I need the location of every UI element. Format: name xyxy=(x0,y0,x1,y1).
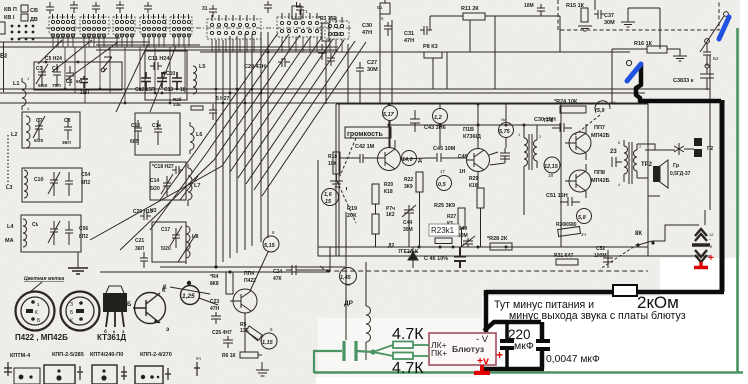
svg-text:Р8 К3: Р8 К3 xyxy=(423,44,438,50)
junction dots amp xyxy=(388,103,526,249)
switch group S6 contacts xyxy=(210,15,255,35)
capacitor C7 trimmer xyxy=(33,116,45,140)
resistor R5 diagonal xyxy=(246,326,263,340)
capacitor C45 xyxy=(428,153,450,162)
capacitor C49 trimmer xyxy=(461,236,475,247)
svg-text:R25 3К9: R25 3К9 xyxy=(434,203,455,209)
wire thick capacitor loop top xyxy=(484,322,541,331)
svg-text:№: № xyxy=(501,117,505,122)
capacitor c-mid-b xyxy=(264,1,272,13)
transistor bottom view 2 outer xyxy=(61,292,100,331)
transistor T1 circle xyxy=(378,148,401,171)
capacitor trimmer L4 xyxy=(48,221,60,245)
svg-text:Б: Б xyxy=(127,302,132,308)
switch group S5 contacts xyxy=(172,14,190,31)
svg-text:L4: L4 xyxy=(7,224,14,230)
svg-text:С3833 к: С3833 к xyxy=(673,78,694,84)
speaker cone xyxy=(660,160,668,188)
dashed diagonal 8K xyxy=(600,244,638,269)
wire thick vertical along right side xyxy=(720,100,725,292)
svg-text:23: 23 xyxy=(610,149,617,155)
svg-text:Б1: Б1 xyxy=(377,5,383,10)
svg-text:К18: К18 xyxy=(384,189,393,195)
svg-text:С5 Н24: С5 Н24 xyxy=(45,56,62,62)
wire long horizontal y103 xyxy=(0,102,648,104)
svg-text:С44: С44 xyxy=(403,220,412,226)
wire k to pp4 xyxy=(170,287,210,294)
capacitor C20 xyxy=(140,212,151,220)
diode D2 xyxy=(408,247,418,268)
transistor symbol circle xyxy=(135,293,166,324)
svg-text:1Н: 1Н xyxy=(459,169,466,175)
connector sym BC xyxy=(121,366,127,380)
capacitor C18 xyxy=(172,166,183,174)
svg-text:68П: 68П xyxy=(130,139,140,145)
svg-text:С21: С21 xyxy=(135,238,144,244)
circle B2 terminal xyxy=(705,39,710,44)
capacitor C14 trimmer xyxy=(161,174,173,196)
wire c24 to dr xyxy=(302,247,330,270)
wire verticals amp feed xyxy=(348,14,392,104)
L3 section box xyxy=(22,168,82,202)
svg-text:С49: С49 xyxy=(458,226,467,232)
svg-text:10М: 10М xyxy=(524,3,534,9)
wire corner diagonal xyxy=(700,16,724,52)
circled value 1,15 xyxy=(261,333,277,349)
coil L7 xyxy=(188,164,192,206)
ground red repaint over green xyxy=(474,366,490,373)
svg-text:L3: L3 xyxy=(6,185,12,191)
svg-text:47Н: 47Н xyxy=(210,306,220,312)
svg-text:0ч: 0ч xyxy=(196,356,202,361)
svg-text:L1: L1 xyxy=(13,81,19,87)
svg-text:R20: R20 xyxy=(384,182,393,188)
resistor R3 vertical xyxy=(322,23,329,41)
connector G1 small xyxy=(292,2,301,19)
svg-text:К: К xyxy=(163,285,167,291)
svg-text:КПП-2-5/285: КПП-2-5/285 xyxy=(52,352,84,358)
switch group S4 box xyxy=(140,17,166,34)
svg-text:18: 18 xyxy=(548,173,554,178)
wire R16 left xyxy=(612,49,647,89)
diagonal fan line 8 xyxy=(254,41,355,190)
svg-text:С43 3Н6: С43 3Н6 xyxy=(424,125,446,131)
wire tp1 secondary down xyxy=(524,125,561,247)
capacitor C17 trimmer xyxy=(170,226,182,248)
svg-text:ПК+: ПК+ xyxy=(431,348,447,358)
label gromkost box xyxy=(345,127,391,138)
wire g2 xyxy=(684,148,694,150)
resistor R31 horizontal xyxy=(556,259,578,265)
tv2 pins xyxy=(70,301,84,324)
connector A circles xyxy=(19,375,33,380)
svg-text:- V: - V xyxy=(476,334,489,345)
wire long horizontal y267 xyxy=(160,266,345,268)
wire vertical x360 xyxy=(359,78,361,104)
coil L8 xyxy=(186,222,190,264)
resistor 2kOm body xyxy=(613,285,637,296)
svg-text:1,15: 1,15 xyxy=(262,340,274,346)
svg-text:С54: С54 xyxy=(81,172,90,178)
transistor PP7 circle xyxy=(569,132,591,154)
connector sym A xyxy=(4,362,12,376)
wire bottom bus y247 xyxy=(318,246,648,248)
wire comb S6 S7 S8 xyxy=(212,37,342,52)
svg-text:47Н: 47Н xyxy=(404,38,414,44)
wire left bracket xyxy=(0,22,5,34)
capacitor C24 xyxy=(286,265,302,275)
wire thick horizontal bottom right to resistor xyxy=(637,290,724,295)
dashed amp bottom border xyxy=(320,266,648,271)
resistor R16 xyxy=(647,46,667,53)
transistor PP4 circle xyxy=(233,289,257,313)
L7 can box xyxy=(150,162,186,200)
svg-text:С10: С10 xyxy=(332,32,341,38)
transistor PP7 internals xyxy=(565,133,586,153)
contact group A dots xyxy=(11,25,35,41)
capacitor 10M xyxy=(537,4,545,16)
diagonal fan line 5 xyxy=(230,37,322,172)
wire verticals right feed xyxy=(430,16,560,89)
capacitor C4 xyxy=(53,64,61,86)
svg-text:КПТМ-4: КПТМ-4 xyxy=(10,353,31,359)
svg-text:КПТ4/240-П0: КПТ4/240-П0 xyxy=(90,352,123,358)
dashed diagonal from 5,9 xyxy=(575,115,600,135)
wire from 1,25 xyxy=(199,298,218,305)
svg-text:5/20: 5/20 xyxy=(34,138,44,144)
coil L6 xyxy=(190,122,194,154)
diagonal link to L2 box xyxy=(116,44,176,112)
wire amp horizontal y125 xyxy=(389,124,561,126)
svg-text:С28 47Н: С28 47Н xyxy=(244,64,266,70)
pointer line metka xyxy=(30,282,42,292)
svg-text:К736IД: К736IД xyxy=(463,134,481,140)
svg-text:R27: R27 xyxy=(447,214,456,220)
wire vertical bus 2 xyxy=(222,40,224,262)
svg-text:Д2: Д2 xyxy=(388,243,395,249)
svg-text:С 46 10%: С 46 10% xyxy=(424,256,448,262)
connector B circles xyxy=(56,369,61,380)
connector sym CD xyxy=(165,368,171,380)
svg-text:ПП8: ПП8 xyxy=(594,170,605,176)
switch group S5 box xyxy=(170,17,192,34)
svg-text:5/20: 5/20 xyxy=(150,186,160,192)
capacitor top row c-c xyxy=(92,2,100,13)
capacitor N mid xyxy=(327,53,335,66)
svg-text:С4: С4 xyxy=(52,66,59,72)
svg-text:ПП4: ПП4 xyxy=(244,271,254,277)
capacitor C48 xyxy=(500,148,510,163)
svg-text:5 Н27: 5 Н27 xyxy=(216,96,230,102)
svg-text:*R28 2К: *R28 2К xyxy=(487,236,508,242)
L8 can box xyxy=(152,222,186,262)
switch group S1 contacts xyxy=(51,14,74,31)
battery chevrons up xyxy=(695,229,707,241)
resistor R26 xyxy=(191,106,203,110)
connector G2 lower block xyxy=(694,149,702,157)
L6 can box xyxy=(135,113,180,155)
band switch square SV xyxy=(21,5,28,12)
wire r11 xyxy=(430,15,560,17)
svg-text:8К8: 8К8 xyxy=(210,281,219,287)
wire long horizontal y52 xyxy=(96,45,630,52)
svg-text:47Н: 47Н xyxy=(362,30,372,36)
wire vertical bus 6 xyxy=(251,34,253,246)
svg-text:ПП7: ПП7 xyxy=(594,125,605,131)
svg-text:ДВ: ДВ xyxy=(30,17,38,23)
dashed wire r19 xyxy=(337,181,356,223)
battery bar xyxy=(692,243,710,247)
switch group S8 box xyxy=(325,21,349,39)
svg-text:8К: 8К xyxy=(635,231,642,237)
capacitor top row c-e xyxy=(144,2,152,13)
choke DR coil xyxy=(366,298,371,350)
svg-text:R29: R29 xyxy=(469,176,478,182)
capacitor row c xyxy=(172,72,182,88)
resistor R29 vertical xyxy=(477,188,484,208)
capacitor C44 trimmer xyxy=(402,205,416,218)
resistor R15 vertical xyxy=(581,8,588,22)
svg-text:1,6: 1,6 xyxy=(324,192,333,198)
wire t1 collector up xyxy=(390,121,440,149)
svg-text:+: + xyxy=(708,253,714,264)
green resistor lower 4.7K xyxy=(393,353,413,360)
switch group S3 contacts xyxy=(115,14,133,31)
switch group S2 contacts xyxy=(82,14,105,31)
wire long horizontal y272 xyxy=(100,271,330,273)
corner circle top right xyxy=(724,12,729,17)
circled value 5,75 xyxy=(499,123,514,138)
capacitor 15P left xyxy=(80,76,88,88)
ground red below box xyxy=(475,365,489,373)
capacitor C6 xyxy=(66,66,74,86)
circle node C3833 xyxy=(626,60,631,65)
svg-text:С16: С16 xyxy=(131,123,140,129)
resistor R24 horizontal xyxy=(560,106,586,113)
svg-text:5,8: 5,8 xyxy=(578,215,587,221)
wire vertical bus 7 xyxy=(260,32,262,242)
transistor T2 circle xyxy=(467,149,490,172)
svg-text:30М: 30М xyxy=(367,67,378,73)
resistor R18 vertical xyxy=(333,152,340,174)
svg-text:П422 , МП42Б: П422 , МП42Б xyxy=(15,333,68,342)
transistor PP4 internals xyxy=(230,291,251,311)
svg-text:30М: 30М xyxy=(403,227,413,233)
connector D circles xyxy=(141,375,160,379)
switch nodes xyxy=(636,243,639,246)
svg-text:С23: С23 xyxy=(210,299,219,305)
circled value 1,6 15 xyxy=(322,189,339,206)
capacitor row a xyxy=(141,72,151,88)
svg-text:1,2: 1,2 xyxy=(434,115,442,121)
svg-text:КПП-2-4/270: КПП-2-4/270 xyxy=(140,352,172,358)
svg-text:СВ: СВ xyxy=(30,8,38,14)
L2 section box xyxy=(22,112,80,148)
junction dots bus247 xyxy=(418,246,508,249)
svg-text:С11 Н24: С11 Н24 xyxy=(148,56,170,62)
capacitor C43 xyxy=(410,110,420,132)
capacitor trimmer L3 xyxy=(48,172,60,196)
package KT361D tab xyxy=(106,286,124,293)
transformer TP2 left winding xyxy=(624,140,628,182)
blue pen mark near C3833 xyxy=(627,64,641,81)
diagonal fan line 2 xyxy=(150,34,289,230)
svg-text:8П2: 8П2 xyxy=(81,180,90,186)
svg-text:П1В: П1В xyxy=(463,127,474,133)
svg-text:С3: С3 xyxy=(36,66,43,72)
svg-text:1К2: 1К2 xyxy=(386,212,395,218)
svg-text:4.7К: 4.7К xyxy=(392,360,424,377)
svg-text:Г1: Г1 xyxy=(303,9,308,14)
svg-text:С13: С13 xyxy=(164,87,173,93)
coil L1 xyxy=(22,78,26,110)
wire right area xyxy=(612,8,699,241)
circled value 12,15 xyxy=(544,157,560,173)
wire border right xyxy=(709,55,711,210)
connector sym E xyxy=(194,362,200,376)
wire vertical to green cap xyxy=(345,212,347,340)
diagonal fan line 9 xyxy=(262,42,366,196)
connector rect A xyxy=(14,368,40,384)
resistor R27 vertical xyxy=(458,208,465,228)
transistor PP8 internals xyxy=(565,171,586,191)
svg-text:+: + xyxy=(496,348,503,362)
blue pen mark top right corner xyxy=(719,17,729,39)
circled value 5,9 xyxy=(595,101,610,112)
green wire right vertical xyxy=(736,28,739,373)
resistor R22 vertical xyxy=(416,172,423,192)
transistor bottom view 1 outer xyxy=(16,292,55,331)
svg-text:громкость: громкость xyxy=(347,131,383,138)
capacitor L4 fixed xyxy=(65,221,73,245)
svg-text:С25 4Н7: С25 4Н7 xyxy=(212,330,232,336)
coil L2 xyxy=(26,116,30,148)
wire thick capacitor loop bottom xyxy=(483,367,544,372)
circled value 5,15 xyxy=(263,236,279,252)
svg-text:L6: L6 xyxy=(196,132,202,138)
wire amp verticals to bus xyxy=(339,158,481,247)
svg-text:С14: С14 xyxy=(150,178,159,184)
svg-text:С51 15Н: С51 15Н xyxy=(546,193,568,199)
battery chevrons down xyxy=(695,250,707,262)
resistor R26a horizontal xyxy=(435,238,452,244)
wire long horizontal y93 xyxy=(0,92,645,94)
package KT361D body xyxy=(103,293,127,312)
wire vertical bus 1 xyxy=(215,40,217,267)
svg-text:5,75: 5,75 xyxy=(499,129,511,135)
connector B1 xyxy=(380,0,390,14)
connector C circles xyxy=(101,369,106,380)
wire bottom right bus xyxy=(530,256,710,268)
green wire branch lower xyxy=(373,352,393,356)
capacitor C3 trimmer xyxy=(36,64,48,86)
svg-text:R23k1: R23k1 xyxy=(431,226,455,235)
svg-text:R6 1К: R6 1К xyxy=(222,353,237,359)
wire vertical bus 8 xyxy=(267,32,269,238)
green capacitor plates xyxy=(344,341,356,361)
switch group S3 box xyxy=(113,17,135,34)
L4 section box xyxy=(21,215,81,252)
capacitor C11 xyxy=(150,62,162,70)
svg-text:С52: С52 xyxy=(596,246,605,252)
ground R16 xyxy=(673,56,687,61)
resistor R21 vertical xyxy=(372,214,379,234)
svg-text:*R4: *R4 xyxy=(210,274,219,280)
svg-text:К: К xyxy=(70,318,73,324)
capacitor top row c-a xyxy=(46,2,54,14)
svg-text:С48: С48 xyxy=(458,154,467,160)
svg-text:З: З xyxy=(70,302,73,308)
capacitor C3833 xyxy=(700,68,714,90)
svg-text:С42 1М: С42 1М xyxy=(355,144,375,150)
svg-text:5,17: 5,17 xyxy=(383,112,395,118)
diagonal fan line 7 xyxy=(246,40,344,184)
connector rect C xyxy=(92,365,117,384)
wire extra horizontals top left xyxy=(0,38,186,45)
svg-text:75П: 75П xyxy=(52,83,61,89)
green junction node xyxy=(370,349,375,354)
jack symbol arrows xyxy=(674,143,684,155)
svg-text:36П: 36П xyxy=(135,246,145,252)
svg-text:14,0: 14,0 xyxy=(402,157,413,163)
wire pp4 emitter down xyxy=(245,313,262,355)
switch group S2 box xyxy=(80,17,109,34)
tv1 pins xyxy=(26,300,41,324)
svg-text:4.7К: 4.7К xyxy=(392,326,424,343)
coil L5 xyxy=(193,66,197,94)
svg-text:5/20: 5/20 xyxy=(38,83,48,89)
resistor R6 horizontal xyxy=(240,352,258,358)
svg-text:31: 31 xyxy=(202,6,208,12)
wire from L4 down xyxy=(77,252,79,268)
switch link dash-dot line xyxy=(46,27,352,29)
capacitor 220mkF plates xyxy=(500,341,514,348)
svg-text:3К9: 3К9 xyxy=(404,184,413,190)
connector rect B xyxy=(44,365,75,384)
svg-text:8П2: 8П2 xyxy=(79,234,88,240)
antenna trimmer switch xyxy=(103,57,112,72)
wire battery top xyxy=(704,210,706,225)
svg-text:15: 15 xyxy=(325,199,332,205)
green wire cap to junction xyxy=(357,351,373,352)
svg-text:МП42Б: МП42Б xyxy=(591,178,610,184)
package KT361D legs xyxy=(106,312,124,327)
svg-text:30М: 30М xyxy=(604,20,615,26)
wire vertical x326 xyxy=(325,41,327,104)
svg-text:0,0047 мкФ: 0,0047 мкФ xyxy=(546,354,600,365)
svg-text:R19: R19 xyxy=(347,206,357,212)
capacitor C27 xyxy=(356,62,364,78)
capacitor top row c-b xyxy=(70,1,78,13)
transformer TP1 right winding xyxy=(534,134,538,168)
svg-text:Сtₗ: Сtₗ xyxy=(32,222,38,228)
ground under L4 xyxy=(68,268,88,274)
capacitor at 23 xyxy=(612,157,622,167)
capacitor C42 xyxy=(352,154,371,163)
annotation box R23k1 xyxy=(429,224,459,236)
svg-text:КВ П: КВ П xyxy=(4,7,17,13)
diagonal link to L1 box xyxy=(38,40,118,80)
circled value 5,8 xyxy=(577,209,592,224)
svg-text:2ч: 2ч xyxy=(581,232,587,237)
caps column C16 68P xyxy=(134,120,142,145)
resistor R28 horizontal xyxy=(490,243,512,250)
transformer TP1 core xyxy=(529,134,532,170)
diagonal fan line 6 xyxy=(238,39,333,178)
svg-text:Блютуз: Блютуз xyxy=(452,344,484,354)
svg-text:С30 15Н: С30 15Н xyxy=(534,117,556,123)
svg-text:С10: С10 xyxy=(166,71,175,77)
